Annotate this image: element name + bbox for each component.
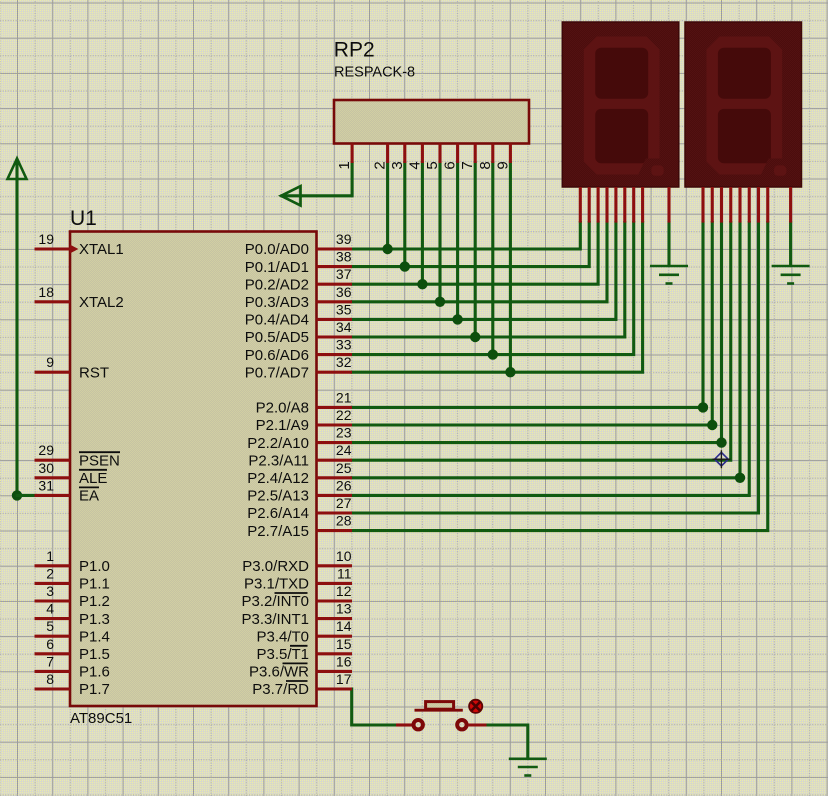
pin 26 (P2.5) stub [317, 494, 353, 497]
display DS2 pin 1 stub [701, 187, 704, 223]
wire P3.7 to button [352, 689, 396, 725]
push button right contact [457, 720, 466, 729]
wire net P2.5 [352, 223, 749, 496]
pin 9 (RST) stub [35, 371, 71, 374]
wire button to ground [486, 725, 528, 758]
wire net P0.1 [352, 223, 589, 267]
svg-text:P3.4/T0: P3.4/T0 [256, 628, 309, 645]
RP2 pin 4 stub [421, 144, 424, 164]
wire RP2 pin4 to P0.2 [421, 163, 424, 284]
svg-text:P1.0: P1.0 [79, 558, 110, 575]
wire RP2 pin2 to P0.0 [386, 163, 389, 249]
svg-text:3: 3 [46, 583, 54, 599]
junction P0.3/RP2 [435, 297, 445, 307]
junction P2.4 [735, 473, 745, 483]
junction P2.0 [698, 402, 708, 412]
wire display1 common to ground [667, 223, 670, 266]
pin 38 (P0.1) stub [317, 265, 353, 268]
svg-text:P1.6: P1.6 [79, 664, 110, 681]
pin 32 (P0.7) stub [317, 371, 353, 374]
wire net P2.1 [352, 223, 712, 425]
svg-text:31: 31 [38, 477, 54, 493]
pin 23 (P2.2) stub [317, 441, 353, 444]
svg-text:P1.1: P1.1 [79, 576, 110, 593]
display DS2 pin 2 stub [711, 187, 714, 223]
svg-text:3: 3 [389, 161, 406, 169]
junction P0.2/RP2 [417, 279, 427, 289]
ground (display2) [772, 266, 810, 284]
RP2 pin 1 stub [351, 144, 354, 164]
display DS1 pin 8 stub [641, 187, 644, 223]
ground (button) [509, 759, 547, 776]
svg-text:33: 33 [336, 337, 352, 353]
pin 28 (P2.7) stub [317, 529, 353, 532]
junction P0.0/RP2 [382, 244, 392, 254]
svg-text:32: 32 [336, 354, 352, 370]
svg-text:9: 9 [494, 161, 511, 169]
svg-text:35: 35 [336, 301, 352, 317]
svg-text:U1: U1 [70, 207, 97, 230]
svg-text:7: 7 [46, 653, 54, 669]
RP2 pin 8 stub [491, 144, 494, 164]
svg-text:10: 10 [336, 548, 352, 564]
RP2 pin 2 stub [386, 144, 389, 164]
pin 12 (P3.2) stub [317, 599, 353, 602]
svg-text:26: 26 [336, 477, 352, 493]
wire RP2 pin5 to P0.3 [438, 163, 441, 302]
svg-text:P1.2: P1.2 [79, 593, 110, 610]
push button left stub [396, 723, 412, 726]
svg-text:23: 23 [336, 425, 352, 441]
clock input arrow XTAL1 [70, 245, 78, 254]
svg-text:P1.5: P1.5 [79, 646, 110, 663]
push button operate dot [469, 699, 483, 713]
svg-text:P1.3: P1.3 [79, 611, 110, 628]
svg-text:2: 2 [46, 565, 54, 581]
svg-text:P2.0/A8: P2.0/A8 [256, 400, 309, 417]
display DS1 segments [584, 37, 664, 176]
display DS2 common pin stub [789, 187, 792, 223]
RP2 pin 3 stub [403, 144, 406, 164]
wire net P2.7 [352, 223, 768, 531]
svg-text:25: 25 [336, 460, 352, 476]
svg-text:30: 30 [38, 460, 54, 476]
svg-text:P1.4: P1.4 [79, 628, 110, 645]
svg-text:27: 27 [336, 495, 352, 511]
pin 22 (P2.1) stub [317, 423, 353, 426]
junction P2.1 [707, 420, 717, 430]
pin 13 (P3.3) stub [317, 617, 353, 620]
pin 14 (P3.4) stub [317, 635, 353, 638]
svg-text:XTAL1: XTAL1 [79, 241, 124, 258]
svg-text:14: 14 [336, 618, 352, 634]
svg-text:P3.5/T1: P3.5/T1 [256, 646, 309, 663]
svg-text:38: 38 [336, 249, 352, 265]
svg-text:P2.6/A14: P2.6/A14 [247, 505, 309, 522]
svg-text:36: 36 [336, 284, 352, 300]
junction P0.6/RP2 [488, 349, 498, 359]
RP2 pin 6 stub [456, 144, 459, 164]
push button left contact [414, 720, 423, 729]
junction EA rail [12, 490, 22, 500]
push button cap [426, 702, 454, 710]
svg-text:P0.3/AD3: P0.3/AD3 [245, 294, 309, 311]
display DS1 common pin stub [667, 187, 670, 223]
svg-text:RST: RST [79, 364, 109, 381]
7-segment display DS1 body [562, 22, 679, 187]
terminal arrow (left, hollow) [281, 186, 301, 205]
wire net P0.6 [352, 223, 634, 355]
svg-text:4: 4 [46, 601, 54, 617]
pin 37 (P0.2) stub [317, 283, 353, 286]
svg-text:21: 21 [336, 389, 352, 405]
svg-text:P3.0/RXD: P3.0/RXD [242, 558, 309, 575]
pin 21 (P2.0) stub [317, 406, 353, 409]
svg-text:29: 29 [38, 442, 54, 458]
pin 7 (P1.6) stub [35, 670, 71, 673]
svg-text:6: 6 [46, 636, 54, 652]
wire power rail to EA [15, 161, 18, 495]
wire RP2 pin9 to P0.7 [509, 163, 512, 372]
pin 27 (P2.6) stub [317, 511, 353, 514]
wire net P2.6 [352, 223, 759, 513]
power terminal arrow (up, hollow) [8, 159, 27, 180]
pin 30 (ALE) stub [35, 476, 71, 479]
svg-text:9: 9 [46, 354, 54, 370]
junction P0.5/RP2 [470, 332, 480, 342]
svg-text:AT89C51: AT89C51 [70, 710, 132, 727]
pin 6 (P1.5) stub [35, 652, 71, 655]
junction P0.4/RP2 [452, 314, 462, 324]
wire net P0.4 [352, 223, 616, 320]
display DS2 pin 8 stub [766, 187, 769, 223]
RP2 pin 5 stub [438, 144, 441, 164]
svg-text:5: 5 [46, 618, 54, 634]
svg-text:22: 22 [336, 407, 352, 423]
resistor pack RP2 body [334, 100, 529, 144]
svg-text:1: 1 [46, 548, 54, 564]
IC U1 AT89C51 body [70, 232, 317, 707]
pin 15 (P3.5) stub [317, 652, 353, 655]
svg-text:12: 12 [336, 583, 352, 599]
svg-text:11: 11 [337, 565, 352, 581]
wire net P0.2 [352, 223, 598, 285]
junction P0.7/RP2 [505, 367, 515, 377]
svg-text:4: 4 [406, 161, 423, 169]
push button actuator bar [415, 709, 463, 712]
svg-text:1: 1 [336, 161, 353, 169]
wire net P2.3 [352, 223, 731, 461]
pin 25 (P2.4) stub [317, 476, 353, 479]
svg-text:2: 2 [372, 161, 389, 169]
wire RP2 pin8 to P0.6 [491, 163, 494, 355]
display DS1 pin 2 stub [588, 187, 591, 223]
svg-text:P3.1/TXD: P3.1/TXD [244, 576, 309, 593]
svg-text:EA: EA [79, 488, 99, 505]
svg-text:34: 34 [336, 319, 352, 335]
wire net P0.5 [352, 223, 625, 337]
display DS2 pin 3 stub [720, 187, 723, 223]
wire RP2 pin1 down-left [282, 163, 352, 196]
svg-text:P2.4/A12: P2.4/A12 [247, 470, 309, 487]
svg-text:7: 7 [459, 161, 476, 169]
pin 29 (PSEN) stub [35, 459, 71, 462]
ground (display1) [650, 266, 688, 284]
svg-text:P2.2/A10: P2.2/A10 [247, 435, 309, 452]
svg-text:P1.7: P1.7 [79, 681, 110, 698]
svg-text:15: 15 [336, 636, 352, 652]
pin 5 (P1.4) stub [35, 635, 71, 638]
display DS1 pin 6 stub [623, 187, 626, 223]
svg-text:8: 8 [477, 161, 494, 169]
svg-text:P2.3/A11: P2.3/A11 [248, 452, 309, 469]
pin 19 (XTAL1) stub [35, 247, 71, 250]
pin 17 (P3.7) stub [317, 687, 353, 690]
pin 31 (EA) stub [35, 494, 71, 497]
svg-text:13: 13 [336, 601, 352, 617]
svg-text:XTAL2: XTAL2 [79, 294, 124, 311]
display DS2 pin 5 stub [738, 187, 741, 223]
svg-text:18: 18 [38, 284, 54, 300]
display DS1 pin 7 stub [632, 187, 635, 223]
pin 2 (P1.1) stub [35, 582, 71, 585]
svg-text:37: 37 [336, 266, 352, 282]
svg-text:P0.2/AD2: P0.2/AD2 [245, 276, 309, 293]
svg-text:P3.7/RD: P3.7/RD [252, 681, 309, 698]
svg-text:P2.7/A15: P2.7/A15 [247, 523, 309, 540]
svg-text:P0.4/AD4: P0.4/AD4 [245, 312, 309, 329]
svg-text:6: 6 [442, 161, 459, 169]
svg-text:5: 5 [424, 161, 441, 169]
pin 33 (P0.6) stub [317, 353, 353, 356]
display DS2 pin 7 stub [757, 187, 760, 223]
svg-text:17: 17 [336, 671, 352, 687]
display DS2 pin 6 stub [748, 187, 751, 223]
display DS1 pin 1 stub [579, 187, 582, 223]
svg-text:P0.0/AD0: P0.0/AD0 [245, 241, 309, 258]
wire net P0.0 [352, 223, 580, 249]
wire net P0.3 [352, 223, 607, 302]
pin 35 (P0.4) stub [317, 318, 353, 321]
pin 16 (P3.6) stub [317, 670, 353, 673]
svg-text:P2.1/A9: P2.1/A9 [256, 417, 309, 434]
origin marker (diamond crosshair) [715, 452, 729, 466]
svg-text:PSEN: PSEN [79, 452, 120, 469]
wire RP2 pin3 to P0.1 [403, 163, 406, 267]
display DS1 pin 3 stub [597, 187, 600, 223]
pin 10 (P3.0) stub [317, 564, 353, 567]
wire net P2.4 [352, 223, 740, 478]
pin 4 (P1.3) stub [35, 617, 71, 620]
wire display2 common to ground [789, 223, 792, 266]
display DS2 segments [707, 37, 787, 176]
svg-text:RESPACK-8: RESPACK-8 [334, 65, 415, 81]
RP2 pin 9 stub [509, 144, 512, 164]
pin 39 (P0.0) stub [317, 247, 353, 250]
wire net P0.7 [352, 223, 643, 373]
svg-text:P3.3/INT1: P3.3/INT1 [241, 611, 309, 628]
pin 36 (P0.3) stub [317, 300, 353, 303]
wire net P2.2 [352, 223, 722, 443]
wire net P2.0 [352, 223, 703, 408]
svg-text:28: 28 [336, 513, 352, 529]
svg-text:P0.7/AD7: P0.7/AD7 [245, 364, 309, 381]
pin 18 (XTAL2) stub [35, 300, 71, 303]
pin 11 (P3.1) stub [317, 582, 353, 585]
7-segment display DS2 body [685, 22, 802, 187]
pin 34 (P0.5) stub [317, 335, 353, 338]
display DS1 pin 4 stub [605, 187, 608, 223]
wire rail to EA pin [17, 494, 36, 497]
svg-text:P3.6/WR: P3.6/WR [249, 664, 309, 681]
svg-text:24: 24 [336, 442, 352, 458]
svg-text:16: 16 [336, 653, 352, 669]
pin 3 (P1.2) stub [35, 599, 71, 602]
svg-text:P0.1/AD1: P0.1/AD1 [245, 259, 309, 276]
svg-text:P3.2/INT0: P3.2/INT0 [241, 593, 309, 610]
svg-text:RP2: RP2 [334, 39, 375, 62]
RP2 pin 7 stub [474, 144, 477, 164]
pin 1 (P1.0) stub [35, 564, 71, 567]
push button right stub [468, 723, 487, 726]
display DS2 pin 4 stub [729, 187, 732, 223]
svg-text:19: 19 [38, 231, 54, 247]
junction P2.2 [716, 437, 726, 447]
junction P0.1/RP2 [400, 261, 410, 271]
display DS1 pin 5 stub [614, 187, 617, 223]
svg-text:P0.5/AD5: P0.5/AD5 [245, 329, 309, 346]
wire RP2 pin7 to P0.5 [474, 163, 477, 337]
pin 8 (P1.7) stub [35, 687, 71, 690]
wire RP2 pin6 to P0.4 [456, 163, 459, 319]
svg-text:ALE: ALE [79, 470, 107, 487]
svg-text:P2.5/A13: P2.5/A13 [247, 488, 309, 505]
pin 24 (P2.3) stub [317, 459, 353, 462]
svg-text:39: 39 [336, 231, 352, 247]
svg-text:8: 8 [46, 671, 54, 687]
svg-text:P0.6/AD6: P0.6/AD6 [245, 347, 309, 364]
